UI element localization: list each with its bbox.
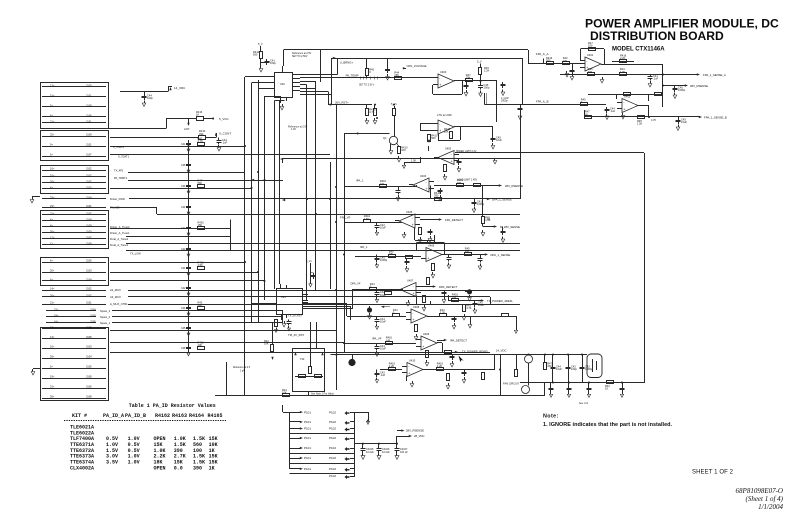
svg-text:1K: 1K — [487, 218, 490, 221]
svg-text:560: 560 — [198, 181, 203, 185]
svg-text:TX_POWER_4REFL: TX_POWER_4REFL — [487, 299, 513, 303]
svg-text:4>: 4> — [50, 217, 53, 221]
svg-text:+: + — [426, 187, 428, 191]
svg-text:IPA_DETECT: IPA_DETECT — [450, 338, 467, 342]
svg-text:J109: J109 — [86, 132, 92, 136]
svg-text:10K: 10K — [465, 249, 470, 253]
svg-text:Final_A_Tune1: Final_A_Tune1 — [110, 243, 129, 247]
svg-text:100: 100 — [588, 44, 593, 48]
svg-text:16>: 16> — [50, 166, 55, 170]
svg-text:J107: J107 — [86, 179, 92, 183]
svg-text:J102: J102 — [86, 173, 92, 177]
svg-text:390: 390 — [193, 465, 202, 471]
svg-text:C41: C41 — [181, 143, 186, 146]
svg-text:IPA_1: IPA_1 — [360, 245, 368, 249]
svg-text:IPA_1: IPA_1 — [356, 179, 364, 183]
svg-text:560: 560 — [431, 136, 436, 140]
svg-text:SET TO 2.50V: SET TO 2.50V — [292, 55, 308, 58]
svg-text:1 pF: 1 pF — [240, 371, 245, 373]
svg-text:U406: U406 — [428, 243, 435, 247]
svg-text:9>: 9> — [50, 142, 53, 146]
svg-text:20>: 20> — [50, 179, 55, 183]
svg-text:J101: J101 — [86, 119, 92, 123]
svg-text:U401: U401 — [587, 53, 594, 57]
svg-text:P102: P102 — [329, 474, 336, 478]
svg-text:A3_MUX: A3_MUX — [110, 295, 121, 299]
svg-text:+: + — [422, 345, 424, 349]
svg-text:10K: 10K — [386, 338, 391, 342]
svg-text:28_VDC: 28_VDC — [414, 434, 425, 438]
svg-text:10uF: 10uF — [681, 120, 687, 124]
svg-text:30>: 30> — [50, 229, 55, 233]
svg-text:6>: 6> — [50, 113, 53, 117]
svg-text:390: 390 — [389, 252, 394, 256]
svg-text:100: 100 — [380, 182, 385, 186]
svg-text:100p: 100p — [571, 367, 577, 371]
svg-text:5>: 5> — [50, 152, 53, 156]
svg-text:16>: 16> — [54, 319, 59, 323]
svg-text:2.2K: 2.2K — [620, 56, 626, 60]
svg-text:28V_RSENSE: 28V_RSENSE — [406, 429, 424, 433]
svg-text:J106: J106 — [90, 319, 96, 323]
svg-text:J104: J104 — [86, 277, 92, 281]
svg-text:Spare_1: Spare_1 — [100, 321, 111, 325]
svg-text:1. IGNORE indicates that the p: 1. IGNORE indicates that the part is not… — [543, 422, 673, 428]
svg-text:R4162: R4162 — [155, 413, 170, 419]
svg-text:4.7K: 4.7K — [198, 139, 204, 143]
svg-text:100p: 100p — [147, 96, 153, 100]
svg-text:390: 390 — [546, 59, 551, 63]
svg-text:DPA_VF: DPA_VF — [351, 282, 361, 286]
svg-text:4.7K: 4.7K — [651, 119, 656, 122]
svg-text:(Sheet 1 of 4): (Sheet 1 of 4) — [745, 495, 783, 503]
svg-text:J105: J105 — [86, 335, 92, 339]
svg-text:J103: J103 — [86, 229, 92, 233]
svg-text:100 uF: 100 uF — [400, 451, 408, 454]
svg-text:IPA_VF: IPA_VF — [372, 337, 382, 341]
svg-text:1000p: 1000p — [501, 100, 508, 103]
svg-text:T40: T40 — [300, 358, 305, 361]
svg-text:CLX4002A: CLX4002A — [70, 465, 94, 471]
svg-text:390: 390 — [434, 194, 439, 198]
svg-text:12>: 12> — [50, 235, 55, 239]
svg-text:Spare_2: Spare_2 — [100, 315, 111, 319]
svg-text:33>: 33> — [50, 195, 55, 199]
svg-text:14_VDC: 14_VDC — [174, 86, 186, 90]
svg-text:4>: 4> — [50, 223, 53, 227]
svg-text:26>: 26> — [50, 394, 55, 398]
svg-text:J109: J109 — [86, 223, 92, 227]
svg-text:+: + — [439, 129, 441, 133]
svg-text:10>: 10> — [50, 344, 55, 348]
svg-text:TX_LOW: TX_LOW — [130, 252, 141, 256]
svg-text:J101: J101 — [86, 300, 92, 304]
svg-text:10K: 10K — [452, 295, 457, 299]
svg-text:20>: 20> — [50, 268, 55, 272]
svg-text:10uF: 10uF — [478, 303, 484, 307]
svg-text:+: + — [427, 257, 429, 261]
svg-text:21>: 21> — [50, 300, 55, 304]
svg-text:1000p: 1000p — [477, 202, 485, 206]
svg-text:U409: U409 — [423, 332, 430, 336]
svg-text:13>: 13> — [50, 83, 55, 87]
svg-text:2.2K: 2.2K — [389, 364, 395, 368]
svg-text:J101: J101 — [86, 142, 92, 146]
svg-text:DISTRIBUTION BOARD: DISTRIBUTION BOARD — [590, 29, 724, 43]
svg-text:J104: J104 — [90, 307, 96, 311]
svg-text:SHEET 1 OF 2: SHEET 1 OF 2 — [692, 470, 734, 476]
svg-text:J105: J105 — [86, 364, 92, 368]
svg-text:PA_7DMT1: PA_7DMT1 — [114, 176, 128, 180]
svg-text:KIT #: KIT # — [72, 413, 87, 419]
svg-text:.1uF: .1uF — [380, 373, 386, 377]
svg-text:TX_4P1: TX_4P1 — [114, 169, 124, 173]
svg-text:21>: 21> — [50, 211, 55, 215]
svg-text:C45: C45 — [181, 347, 186, 350]
svg-text:Note:: Note: — [543, 414, 559, 420]
svg-text:P102: P102 — [329, 436, 336, 440]
svg-text:+: + — [451, 160, 453, 164]
svg-text:1000p: 1000p — [678, 88, 686, 92]
svg-text:P101: P101 — [304, 436, 311, 440]
svg-text:U404: U404 — [420, 174, 427, 178]
svg-text:J104: J104 — [86, 195, 92, 199]
svg-text:U_BRNG+: U_BRNG+ — [340, 61, 354, 65]
svg-text:26V_RST+: 26V_RST+ — [335, 100, 349, 104]
svg-text:17>: 17> — [50, 325, 55, 329]
svg-text:A_MUX_CTRL: A_MUX_CTRL — [110, 302, 128, 306]
svg-text:1/1/2004: 1/1/2004 — [758, 503, 783, 511]
svg-text:TX_POWER_RFWD: TX_POWER_RFWD — [462, 350, 488, 354]
svg-text:0.0: 0.0 — [174, 465, 183, 471]
svg-text:DPA_1_SENSE: DPA_1_SENSE — [492, 197, 512, 201]
svg-text:U41: U41 — [281, 295, 286, 299]
svg-text:J102: J102 — [86, 166, 92, 170]
svg-text:4.7K: 4.7K — [466, 306, 472, 310]
svg-text:4>: 4> — [50, 185, 53, 189]
svg-text:6>: 6> — [50, 277, 53, 281]
svg-text:+: + — [408, 372, 410, 376]
svg-text:1K: 1K — [209, 465, 215, 471]
svg-text:Table 1 PA_ID Resistor Values: Table 1 PA_ID Resistor Values — [129, 403, 216, 409]
svg-text:1K: 1K — [585, 112, 588, 116]
svg-text:J108: J108 — [86, 325, 92, 329]
svg-text:2.5V at U400: 2.5V at U400 — [437, 114, 452, 117]
svg-text:R4163: R4163 — [172, 413, 187, 419]
svg-text:Reference at 2.5: Reference at 2.5 — [233, 366, 251, 369]
svg-text:TX_2V_RST: TX_2V_RST — [288, 315, 303, 318]
svg-text:7>: 7> — [50, 241, 53, 245]
svg-text:1.5K: 1.5K — [637, 122, 643, 126]
svg-text:19>: 19> — [50, 374, 55, 378]
svg-text:.1uF: .1uF — [653, 77, 659, 81]
svg-text:C42: C42 — [181, 287, 186, 290]
svg-text:J109: J109 — [86, 241, 92, 245]
svg-text:P102: P102 — [329, 420, 336, 424]
svg-text:U410: U410 — [409, 358, 416, 362]
svg-text:R4164: R4164 — [189, 413, 204, 419]
svg-text:OPA_VOLTAGE: OPA_VOLTAGE — [407, 64, 427, 68]
svg-text:P102: P102 — [329, 427, 336, 431]
svg-text:Driver_FWD: Driver_FWD — [110, 197, 125, 201]
svg-text:15K: 15K — [394, 73, 399, 77]
svg-text:U407: U407 — [407, 278, 414, 282]
svg-text:P102: P102 — [329, 456, 336, 460]
svg-text:1.5K: 1.5K — [364, 217, 370, 221]
svg-text:P101: P101 — [304, 456, 311, 460]
svg-text:15K: 15K — [466, 76, 471, 80]
svg-text:22>: 22> — [54, 307, 59, 311]
svg-text:5_Vx: 5_Vx — [306, 260, 312, 263]
svg-text:OPEN: OPEN — [154, 465, 166, 471]
svg-text:U405: U405 — [406, 210, 413, 214]
svg-text:6>: 6> — [50, 258, 53, 262]
svg-text:J107: J107 — [86, 211, 92, 215]
svg-text:FPA_1_SENSE_A: FPA_1_SENSE_A — [703, 73, 726, 77]
svg-text:J102: J102 — [86, 293, 92, 297]
svg-text:J107: J107 — [86, 235, 92, 239]
svg-text:Spare_3: Spare_3 — [100, 309, 111, 313]
svg-text:J108: J108 — [86, 394, 92, 398]
svg-text:C41: C41 — [181, 267, 186, 270]
svg-text:P101: P101 — [304, 420, 311, 424]
svg-text:+: + — [623, 108, 625, 112]
svg-text:32>: 32> — [50, 132, 55, 136]
svg-text:C45: C45 — [181, 164, 186, 167]
svg-text:3.5V: 3.5V — [106, 460, 118, 466]
svg-text:P101: P101 — [304, 446, 311, 450]
svg-text:10uF: 10uF — [496, 138, 502, 142]
svg-text:J102: J102 — [86, 286, 92, 290]
svg-text:Driver_A_Tune1: Driver_A_Tune1 — [110, 231, 130, 235]
svg-text:10K: 10K — [264, 342, 269, 346]
svg-text:5>: 5> — [50, 103, 53, 107]
svg-text:100: 100 — [198, 303, 203, 307]
svg-text:C45: C45 — [181, 327, 186, 330]
svg-text:FPA_IL_A: FPA_IL_A — [536, 52, 549, 56]
svg-text:J104: J104 — [86, 354, 92, 358]
svg-text:J109: J109 — [86, 103, 92, 107]
svg-text:TM_2V_RST: TM_2V_RST — [288, 333, 304, 337]
svg-text:SPEED LIMIT 2.4V: SPEED LIMIT 2.4V — [456, 150, 477, 153]
svg-text:10.0uF: 10.0uF — [366, 451, 374, 454]
svg-text:100: 100 — [563, 59, 568, 63]
svg-text:J103: J103 — [86, 83, 92, 87]
svg-text:FAN CIRCUIT: FAN CIRCUIT — [503, 382, 520, 386]
svg-text:See x for: See x for — [579, 402, 588, 405]
svg-text:X_7DAT0: X_7DAT0 — [113, 145, 125, 149]
svg-text:P102: P102 — [329, 467, 336, 471]
svg-text:23>: 23> — [50, 204, 55, 208]
svg-text:1.5K: 1.5K — [411, 160, 416, 163]
svg-text:1K: 1K — [605, 387, 608, 391]
svg-text:U402: U402 — [624, 94, 631, 98]
svg-text:1000p: 1000p — [380, 258, 388, 262]
svg-text:390: 390 — [588, 70, 593, 74]
svg-text:28V_RSENSE: 28V_RSENSE — [505, 184, 523, 188]
svg-text:P102: P102 — [329, 410, 336, 414]
svg-text:14>: 14> — [50, 286, 55, 290]
svg-text:20>: 20> — [50, 293, 55, 297]
svg-text:10>: 10> — [50, 173, 55, 177]
svg-text:1.5K: 1.5K — [198, 263, 204, 267]
svg-text:Final_A_Tune2: Final_A_Tune2 — [110, 237, 129, 241]
svg-text:2.2K: 2.2K — [484, 69, 490, 73]
svg-text:2.2K: 2.2K — [440, 311, 446, 315]
svg-text:25>: 25> — [50, 354, 55, 358]
svg-text:U408: U408 — [413, 305, 420, 309]
svg-text:R4165: R4165 — [208, 413, 223, 419]
svg-text:14>: 14> — [50, 335, 55, 339]
svg-text:MODEL CTX1146A: MODEL CTX1146A — [612, 47, 665, 53]
svg-text:P101: P101 — [304, 410, 311, 414]
svg-text:J101: J101 — [86, 93, 92, 97]
svg-text:PA_ID_A: PA_ID_A — [103, 413, 124, 419]
svg-text:ACP: ACP — [184, 127, 190, 131]
svg-text:A2_MUX: A2_MUX — [110, 288, 121, 292]
svg-text:14_VDC: 14_VDC — [496, 349, 507, 353]
svg-text:.1uF: .1uF — [610, 109, 616, 113]
svg-text:+: + — [412, 223, 414, 227]
svg-text:FPA_VF: FPA_VF — [340, 216, 351, 220]
svg-text:28V_RSENSE: 28V_RSENSE — [690, 84, 708, 88]
svg-text:P101: P101 — [304, 427, 311, 431]
svg-text:FPA_1_SENSE_B: FPA_1_SENSE_B — [704, 116, 727, 120]
svg-text:C44: C44 — [181, 307, 186, 310]
svg-text:21>: 21> — [50, 119, 55, 123]
svg-text:10K: 10K — [198, 343, 203, 347]
svg-text:5_V: 5_V — [258, 42, 263, 46]
svg-text:J106: J106 — [86, 384, 92, 388]
svg-text:J106: J106 — [86, 113, 92, 117]
svg-text:PA_TEMP: PA_TEMP — [346, 74, 359, 78]
svg-text:1.0V: 1.0V — [128, 460, 140, 466]
svg-text:SET TO 2.5V x: SET TO 2.5V x — [359, 84, 375, 86]
svg-text:1.0V: 1.0V — [291, 128, 296, 131]
svg-text:5_V: 5_V — [477, 60, 482, 64]
svg-text:10K: 10K — [444, 130, 449, 134]
svg-text:18>: 18> — [54, 313, 59, 317]
svg-text:PA_ID_B: PA_ID_B — [125, 413, 146, 419]
svg-text:31>: 31> — [50, 384, 55, 388]
svg-text:U40: U40 — [280, 82, 285, 86]
svg-text:1000p: 1000p — [585, 367, 593, 371]
svg-text:10uF: 10uF — [380, 347, 386, 351]
svg-text:4.7K: 4.7K — [369, 110, 375, 114]
svg-text:2.2K: 2.2K — [437, 364, 443, 368]
svg-text:C44: C44 — [181, 185, 186, 188]
svg-text:M_28V_SENSE: M_28V_SENSE — [500, 225, 520, 229]
svg-text:390: 390 — [199, 132, 204, 136]
svg-text:10uF: 10uF — [380, 320, 386, 324]
svg-text:J108: J108 — [86, 374, 92, 378]
svg-text:+: + — [413, 292, 415, 296]
svg-text:1K: 1K — [196, 113, 199, 117]
svg-text:P102: P102 — [329, 446, 336, 450]
svg-text:X_7DAT1: X_7DAT1 — [118, 155, 130, 159]
svg-text:.1uF: .1uF — [222, 141, 228, 145]
svg-text:100p: 100p — [270, 61, 276, 65]
svg-text:68P81098E07-O: 68P81098E07-O — [736, 487, 783, 495]
svg-text:10uF: 10uF — [556, 367, 562, 371]
svg-text:10K: 10K — [401, 148, 406, 152]
svg-text:5_VCC: 5_VCC — [219, 117, 230, 121]
svg-text:DPA_DETECT: DPA_DETECT — [439, 285, 458, 289]
svg-text:5>: 5> — [50, 364, 53, 368]
svg-text:V_CONT: V_CONT — [219, 132, 231, 136]
svg-text:10K: 10K — [282, 391, 287, 395]
svg-text:J101: J101 — [86, 204, 92, 208]
svg-text:J103: J103 — [86, 344, 92, 348]
svg-text:10.0uF: 10.0uF — [382, 451, 390, 454]
svg-text:J103: J103 — [86, 268, 92, 272]
svg-text:560: 560 — [253, 53, 258, 57]
svg-text:FPA_IL_B: FPA_IL_B — [536, 99, 549, 103]
svg-text:100: 100 — [457, 181, 462, 185]
svg-text:U403: U403 — [445, 146, 452, 150]
svg-text:15K: 15K — [198, 223, 203, 227]
svg-text:+: + — [439, 83, 441, 87]
svg-text:J109: J109 — [90, 313, 96, 317]
svg-text:J105: J105 — [86, 258, 92, 262]
svg-text:J102: J102 — [86, 185, 92, 189]
svg-text:4.7K: 4.7K — [620, 70, 626, 74]
svg-text:FPA_DETECT: FPA_DETECT — [445, 218, 463, 222]
svg-text:J104: J104 — [86, 217, 92, 221]
svg-text:+: + — [412, 318, 414, 322]
svg-text:15>: 15> — [50, 93, 55, 97]
svg-text:100p: 100p — [484, 86, 490, 90]
svg-text:C44: C44 — [181, 206, 186, 209]
svg-text:U400: U400 — [440, 70, 447, 74]
svg-text:10uF: 10uF — [380, 226, 386, 230]
svg-text:P101: P101 — [304, 467, 311, 471]
svg-text:J107: J107 — [86, 152, 92, 156]
svg-text:DPA_1_SENSE: DPA_1_SENSE — [491, 253, 511, 257]
